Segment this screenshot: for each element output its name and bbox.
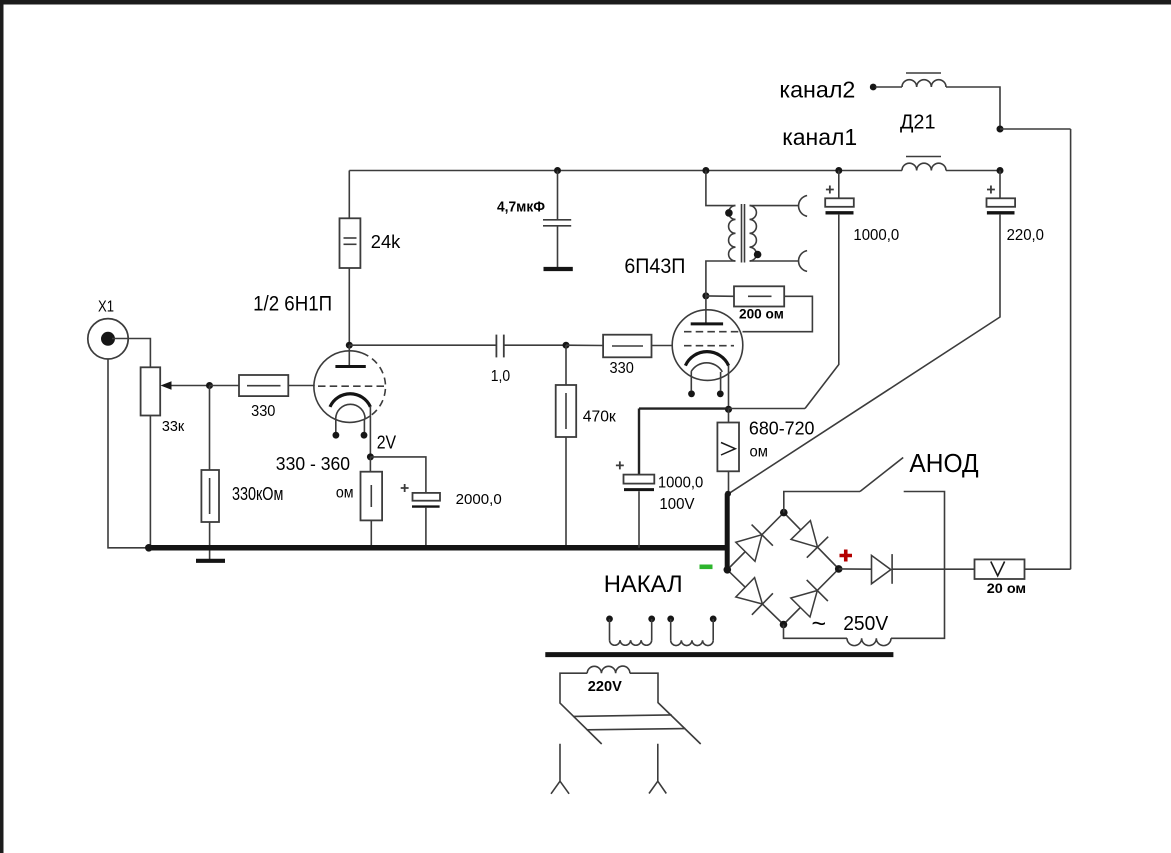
heater arch U2 xyxy=(691,363,722,372)
capacitor 2000,0 xyxy=(413,493,441,501)
svg-text:4,7мкФ: 4,7мкФ xyxy=(497,199,545,216)
wire node to 330кОм xyxy=(209,386,211,471)
plus sign 1000,0 xyxy=(826,186,834,194)
ground bus thick xyxy=(149,545,728,551)
wire choke L2 to corner xyxy=(946,87,1000,129)
screen grid dashed U2 xyxy=(684,331,743,333)
svg-text:2V: 2V xyxy=(377,432,396,452)
node grid network xyxy=(563,342,570,349)
plus sign red xyxy=(840,550,853,562)
capacitor 1000,0 (filter) xyxy=(825,198,854,207)
border frame top bar xyxy=(0,0,1171,5)
node bridge bottom xyxy=(780,621,788,629)
svg-text:220V: 220V xyxy=(588,678,622,695)
svg-text:АНОД: АНОД xyxy=(909,450,978,478)
wire tie node to right rail xyxy=(1000,128,1071,130)
wire X1 down to bus xyxy=(108,359,149,548)
core line of choke L1 xyxy=(906,156,941,158)
resistor R 330кОм xyxy=(201,470,219,522)
cathode arc U2 xyxy=(685,352,728,366)
wire 24k to anode node xyxy=(348,268,350,345)
svg-text:100V: 100V xyxy=(659,496,694,513)
svg-text:ом: ом xyxy=(336,485,354,502)
wire coupling cap to grid node xyxy=(505,344,567,346)
switch blade АНОД xyxy=(860,458,903,492)
anode bar U2 xyxy=(691,322,723,325)
svg-text:канал1: канал1 xyxy=(782,124,857,150)
node bridge top xyxy=(780,509,788,517)
svg-text:680-720: 680-720 xyxy=(749,419,815,439)
wire bias node left to bypass cap xyxy=(639,407,729,409)
wire rail to 4,7мкФ xyxy=(557,171,559,220)
wire 330кОм to ground xyxy=(209,522,211,560)
output transformer secondary winding xyxy=(750,206,757,261)
wire 2000,0 to bus xyxy=(425,508,427,548)
transformer core lines xyxy=(741,204,743,263)
bridge rectifier diamond xyxy=(727,513,838,625)
wire X1 to pot top xyxy=(112,339,150,368)
wire rail to 24k xyxy=(348,171,350,219)
svg-text:НАКАЛ: НАКАЛ xyxy=(604,571,683,598)
wire 1000,0 to cathode node xyxy=(805,215,839,409)
wire diode to 20 ом xyxy=(892,568,974,570)
wire screen node to 200 ом xyxy=(706,295,734,297)
wire 4,7мкФ to ground xyxy=(557,227,559,268)
resistor R 330 grid stopper 6Н1П xyxy=(239,375,288,396)
wire B+ rail канал1 xyxy=(349,170,902,172)
node rail/output transformer xyxy=(702,167,709,174)
svg-text:1/2 6Н1П: 1/2 6Н1П xyxy=(253,293,332,316)
svg-text:330: 330 xyxy=(251,403,275,420)
wire 220V left side xyxy=(560,673,602,744)
cathode arc U1 xyxy=(330,394,370,407)
wire node down to anode bar xyxy=(705,296,707,323)
wire anode node to bar xyxy=(348,345,350,365)
plus sign 220,0 xyxy=(987,186,995,194)
wire grid stopper to tube 6П43П xyxy=(652,345,673,347)
node screen/anode 6П43П xyxy=(702,292,709,299)
ground symbol xyxy=(196,559,225,563)
border frame left bar xyxy=(0,0,4,853)
svg-text:200 ом: 200 ом xyxy=(739,306,784,322)
triode U1 1/2 6Н1П envelope xyxy=(314,351,370,423)
node wiper/grid xyxy=(206,382,213,389)
wire rail to 220,0 cap xyxy=(999,171,1001,199)
heater arch U1 xyxy=(336,404,365,419)
svg-text:20 ом: 20 ом xyxy=(987,580,1026,596)
wire secondary top to speaker xyxy=(750,205,799,207)
core line of choke L2 xyxy=(906,72,941,74)
wire rail to transformer primary xyxy=(706,171,736,206)
wiper arrow of 33к xyxy=(168,385,210,387)
capacitor 1000,0 100V xyxy=(624,475,655,484)
node канал2/канал1 tie xyxy=(997,126,1004,133)
control grid dashed U2 xyxy=(684,345,734,347)
node bridge right plus xyxy=(835,565,843,573)
mains prong 2 xyxy=(649,744,666,794)
wire cathode node to 2000,0 xyxy=(370,457,426,493)
wire anode node to coupling cap xyxy=(349,344,495,346)
svg-text:1000,0: 1000,0 xyxy=(853,227,899,244)
output transformer primary winding xyxy=(729,206,736,261)
svg-text:2000,0: 2000,0 xyxy=(456,491,502,508)
resistor R 24k xyxy=(340,218,361,268)
wire rail to 1000,0 cap xyxy=(838,171,840,199)
capacitor 2000,0 plus sign xyxy=(401,484,409,492)
resistor R 330 grid stopper 6П43П xyxy=(603,335,651,358)
wire bypass cap up xyxy=(638,409,640,475)
voltage selector plate line 2 xyxy=(587,729,686,730)
svg-text:1000,0: 1000,0 xyxy=(658,474,703,491)
connector X1 xyxy=(88,319,128,359)
wire anode switch loop left xyxy=(784,492,860,513)
wire bypass cap to bus xyxy=(638,491,640,548)
phase dot primary xyxy=(725,209,733,217)
wire 470к to bus xyxy=(565,437,567,548)
svg-text:~: ~ xyxy=(812,610,827,638)
heater legs U2 xyxy=(690,372,692,391)
mains prong 1 xyxy=(551,744,569,794)
wire cathode U1 down xyxy=(369,407,371,457)
svg-text:250V: 250V xyxy=(843,613,889,635)
node cathode/bias 6П43П xyxy=(725,406,732,413)
voltage selector plate line 1 xyxy=(573,715,671,717)
capacitor 1,0 coupling xyxy=(495,335,497,358)
svg-text:24k: 24k xyxy=(371,232,402,252)
wire cathode U2 down xyxy=(728,366,730,410)
primary 220V winding xyxy=(587,666,630,673)
inductor choke L1 (канал1) xyxy=(902,163,946,170)
resistor R 470к xyxy=(556,385,577,437)
capacitor 220,0 xyxy=(987,198,1016,207)
wire 680-720 to minus node xyxy=(728,471,730,494)
speaker terminal arc top xyxy=(799,196,808,217)
svg-text:Д21: Д21 xyxy=(900,112,936,134)
svg-text:канал2: канал2 xyxy=(779,77,855,103)
svg-text:220,0: 220,0 xyxy=(1007,227,1044,244)
svg-text:1,0: 1,0 xyxy=(491,368,510,385)
svg-text:330кОм: 330кОм xyxy=(232,484,283,504)
ground bar of 4,7мкФ xyxy=(544,267,573,271)
speaker terminal arc bottom xyxy=(799,251,808,272)
inductor choke L2 (канал2) xyxy=(902,80,946,87)
resistor Rk 330-360 ом xyxy=(361,472,383,521)
capacitor 4,7мкФ xyxy=(543,219,571,221)
wire pot bottom to bus xyxy=(149,416,151,548)
node anode 6Н1П xyxy=(346,342,353,349)
wire 220,0 to minus node xyxy=(729,215,1000,494)
minus sign green xyxy=(700,565,713,570)
wire Rk to bus xyxy=(370,520,372,547)
node rail/4,7мкФ xyxy=(554,167,561,174)
svg-text:470к: 470к xyxy=(583,409,617,426)
wire cathode node to Rk xyxy=(369,457,371,472)
wire HV winding to bridge bottom xyxy=(784,625,848,639)
wire secondary bottom to speaker xyxy=(750,260,799,262)
thick minus drop xyxy=(725,494,730,571)
svg-text:330 - 360: 330 - 360 xyxy=(276,454,350,474)
phase dot secondary xyxy=(754,251,762,259)
node cathode 6Н1П xyxy=(367,453,374,460)
heater pins U2 xyxy=(688,390,695,397)
heater pins U1 xyxy=(333,432,340,439)
wire node to 330 grid stopper xyxy=(210,385,240,387)
wire right B+ rail vertical xyxy=(1070,129,1072,569)
anode bar U1 xyxy=(335,365,365,368)
wire канал2 terminal to choke xyxy=(876,86,903,88)
wire 200 ом return to screen xyxy=(743,296,812,331)
diode D5 series xyxy=(872,555,891,583)
node rail/220,0 cap xyxy=(997,167,1004,174)
heater legs U1 xyxy=(335,419,337,432)
heater winding 1 xyxy=(609,619,611,640)
resistor R 20 ом xyxy=(975,559,1025,579)
transformer HV winding 250V xyxy=(847,638,891,645)
wire choke L1 to 220,0 node xyxy=(946,170,1000,172)
diode D3 bottom-left xyxy=(736,578,763,604)
svg-text:6П43П: 6П43П xyxy=(624,255,685,278)
wire primary bottom to screen node xyxy=(706,261,736,296)
diode D4 bottom-right xyxy=(791,591,818,618)
node bridge left minus xyxy=(724,566,732,574)
svg-text:33к: 33к xyxy=(162,419,185,435)
wire node to grid stopper xyxy=(566,344,603,346)
node канал2 terminal xyxy=(870,84,877,91)
wire node to 470к xyxy=(565,345,567,385)
node rail/1000,0 cap xyxy=(835,167,842,174)
wire bias node to 680-720 xyxy=(728,409,730,422)
resistor R 200 ом xyxy=(734,286,784,306)
heater winding 2 xyxy=(670,619,672,640)
wire stopper to tube grid xyxy=(288,385,314,387)
grid dashed U1 xyxy=(318,385,386,387)
svg-text:X1: X1 xyxy=(98,299,114,316)
wire anode switch loop right xyxy=(891,492,945,639)
potentiometer 33к xyxy=(141,367,161,415)
heater winding 2 pins xyxy=(667,616,674,623)
svg-text:ом: ом xyxy=(750,444,768,461)
wire 20 ом to right rail xyxy=(1025,568,1071,570)
svg-text:330: 330 xyxy=(610,360,634,377)
transformer core bar thick xyxy=(545,652,893,657)
diode D2 top-right xyxy=(791,521,818,548)
plus sign 1000,0 100V xyxy=(616,461,624,469)
wire 220V right side xyxy=(630,673,701,744)
heater winding 1 pins xyxy=(606,616,613,623)
pentode U2 6П43П envelope xyxy=(672,310,743,381)
wire plus node to series diode xyxy=(839,568,872,570)
resistor R 680-720 ом xyxy=(717,423,739,472)
diode D1 top-left xyxy=(736,535,762,562)
